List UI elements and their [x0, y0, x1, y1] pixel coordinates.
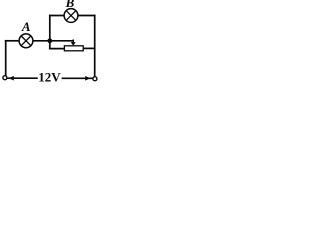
svg-text:B: B — [65, 0, 75, 10]
wire: bottom right segment from 12V label to right terminal — [63, 77, 94, 79]
wire: bottom left segment from terminal to 12V label — [7, 77, 37, 79]
lamp B — [64, 9, 78, 23]
battery terminal right (open) — [93, 77, 97, 81]
arrow pointing left into left terminal — [9, 76, 14, 81]
rheostat slider arrowhead — [71, 42, 76, 46]
wire: top right segment from lamp B to top-right corner — [78, 15, 95, 17]
node: junction dot on lamp A row — [47, 38, 52, 43]
arrow pointing right into right terminal — [85, 76, 90, 81]
rheostat slider arm wire — [72, 40, 74, 44]
wire: top left segment from node column to lamp B — [50, 15, 64, 17]
wire: rheostat right lead to right wall — [83, 47, 95, 49]
wire: lamp A row right segment from lamp A through node to slider column — [33, 40, 73, 42]
svg-text:A: A — [21, 19, 31, 34]
svg-text:12V: 12V — [38, 70, 61, 84]
lamp A — [19, 34, 33, 48]
wire: lamp A row left segment from left wall to lamp A — [6, 40, 19, 42]
wire: middle vertical from top wire down through node to rheostat lead — [49, 16, 51, 49]
rheostat R (slide) body — [64, 46, 83, 51]
wire: left wall down to battery terminal — [5, 41, 7, 76]
wire: right wall down to battery terminal — [94, 16, 96, 77]
battery terminal left (open) — [3, 76, 7, 80]
wire: rheostat left lead from middle vertical corner — [50, 48, 65, 50]
